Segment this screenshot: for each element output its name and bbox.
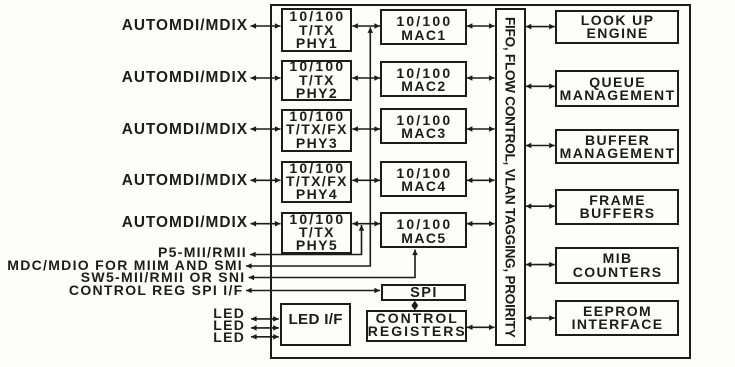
label LED 2 <box>213 317 245 333</box>
label AUTOMDI/MDIX row5 <box>122 214 248 232</box>
wire AUTOMDI row5 to PHY5 <box>251 223 281 225</box>
box MAC5 <box>380 212 467 248</box>
wire PHY1 to MAC1 <box>352 25 380 27</box>
wire FIFO to EEPROM INTERFACE <box>526 317 555 319</box>
box LOOK UP ENGINE <box>555 10 679 45</box>
wire FIFO to MIB COUNTERS <box>526 264 555 266</box>
wire CONTROL REG SPI I/F to SPI <box>246 290 380 292</box>
wire MDC/MDIO to PHY1-MAC1 net <box>246 27 370 266</box>
box MIB COUNTERS <box>555 247 679 284</box>
box MAC3 <box>380 108 467 145</box>
box PHY2 <box>281 60 353 102</box>
wire SW5-MII/RMII to MAC5 <box>249 250 416 278</box>
label AUTOMDI/MDIX row4 <box>122 172 248 190</box>
wire MAC1 to FIFO <box>467 25 495 27</box>
box PHY1 <box>281 8 353 52</box>
wire MAC5 to FIFO <box>467 223 495 225</box>
box EEPROM INTERFACE <box>555 300 679 336</box>
box BUFFER MANAGEMENT <box>555 129 679 164</box>
wire LED3 to LED I/F <box>251 336 279 338</box>
label CONTROL REG SPI I/F <box>69 282 244 298</box>
wire MAC4 to FIFO <box>467 179 495 181</box>
wire AUTOMDI row2 to PHY2 <box>251 77 281 79</box>
label SW5-MII/RMII OR SNI <box>81 269 246 285</box>
wire FIFO to BUFFER MANAGEMENT <box>526 145 555 147</box>
box MAC2 <box>380 61 467 97</box>
box PHY3 <box>281 109 353 152</box>
wire AUTOMDI row4 to PHY4 <box>251 179 281 181</box>
wire PHY3 to MAC3 <box>352 128 380 130</box>
wire MAC2 to FIFO <box>467 77 495 79</box>
wire PHY2 to MAC2 <box>352 77 380 79</box>
label AUTOMDI/MDIX row3 <box>122 121 248 139</box>
wire PHY5 to MAC5 <box>352 223 380 225</box>
outer chip boundary box <box>270 4 692 359</box>
box CONTROL REGISTERS <box>366 310 467 343</box>
label LED 3 <box>213 329 245 345</box>
label P5-MII/RMII <box>158 244 247 260</box>
box MAC1 <box>380 9 467 45</box>
wire AUTOMDI row1 to PHY1 <box>251 25 281 27</box>
wire AUTOMDI row3 to PHY3 <box>251 128 281 130</box>
box FRAME BUFFERS <box>555 189 679 225</box>
box SPI <box>381 284 467 301</box>
box FIFO FLOW CONTROL VLAN TAGGING PROIRITY <box>495 8 526 346</box>
wire SPI to CONTROL REGISTERS <box>411 301 418 311</box>
wire FIFO to QUEUE MANAGEMENT <box>526 85 555 87</box>
box PHY4 <box>281 161 353 203</box>
wire CONTROL REGISTERS to FIFO <box>467 326 495 328</box>
label AUTOMDI/MDIX row2 <box>122 69 248 87</box>
wire LED2 to LED I/F <box>251 327 279 329</box>
wire FIFO to LOOK UP ENGINE <box>526 26 555 28</box>
wire PHY4 to MAC4 <box>352 179 380 181</box>
box MAC4 <box>380 161 467 197</box>
wire MAC3 to FIFO <box>467 128 495 130</box>
wire P5-MII/RMII to PHY5-MAC5 net <box>250 225 362 255</box>
label AUTOMDI/MDIX row1 <box>122 17 248 35</box>
box PHY5 <box>281 212 353 254</box>
wire LED1 to LED I/F <box>251 318 279 320</box>
box LED I/F <box>280 303 351 346</box>
wire FIFO to FRAME BUFFERS <box>526 205 555 207</box>
box QUEUE MANAGEMENT <box>555 70 679 107</box>
label LED 1 <box>213 305 245 321</box>
label MDC/MDIO FOR MIIM AND SMI <box>7 257 243 273</box>
